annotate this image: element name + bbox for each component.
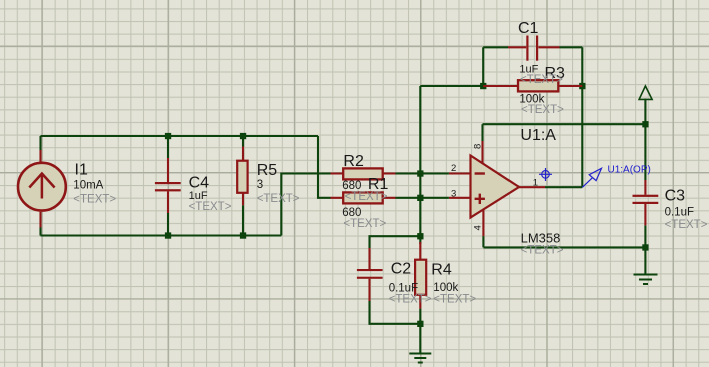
node C2/R4 top xyxy=(417,233,423,239)
resistor R4 xyxy=(415,242,426,309)
wire node to R4 top xyxy=(419,236,421,244)
wire R2 right to node xyxy=(396,172,449,174)
svg-text:<TEXT>: <TEXT> xyxy=(73,194,116,206)
svg-text:<TEXT>: <TEXT> xyxy=(343,218,386,230)
svg-text:<TEXT>: <TEXT> xyxy=(520,74,563,86)
wire C2 top branch xyxy=(370,236,421,248)
svg-text:<TEXT>: <TEXT> xyxy=(521,245,564,257)
node top rail / C4 xyxy=(165,133,171,139)
voltage probe U1:A(OP) xyxy=(582,168,601,187)
origin marker xyxy=(539,168,552,181)
svg-text:<TEXT>: <TEXT> xyxy=(521,104,564,116)
op-amp U1:A xyxy=(449,141,545,236)
wire output xyxy=(545,186,582,188)
svg-text:R2: R2 xyxy=(343,153,364,170)
node bottom rail / R5 xyxy=(240,232,246,238)
svg-text:2: 2 xyxy=(451,163,456,174)
svg-text:I1: I1 xyxy=(75,162,88,179)
node bottom rail / C4 xyxy=(165,232,171,238)
wire I1 bottom stub xyxy=(39,228,41,236)
svg-text:R5: R5 xyxy=(257,162,278,179)
svg-text:<TEXT>: <TEXT> xyxy=(189,201,232,213)
node feedback right xyxy=(579,83,585,89)
svg-text:U1:A: U1:A xyxy=(520,127,556,144)
resistor R2 xyxy=(331,168,396,179)
svg-text:R4: R4 xyxy=(431,262,452,279)
wire feedback right column xyxy=(581,47,583,187)
wire power rail top xyxy=(483,123,646,125)
wire C1 left xyxy=(483,46,508,48)
svg-text:LM358: LM358 xyxy=(521,230,561,245)
ground GND2 xyxy=(634,275,658,285)
svg-text:C1: C1 xyxy=(518,20,539,37)
wire R4 bottom to node xyxy=(419,309,421,324)
wire feedback left column xyxy=(419,86,421,236)
resistor R1 xyxy=(331,192,396,203)
wire feedback top row xyxy=(420,85,483,87)
capacitor C1 xyxy=(508,36,560,61)
capacitor C4 xyxy=(155,158,181,213)
current source I1 xyxy=(18,150,66,228)
resistor R5 xyxy=(237,147,247,206)
wire node down to ground GND1 xyxy=(419,324,421,353)
svg-text:U1:A(OP): U1:A(OP) xyxy=(608,165,651,176)
node feedback left xyxy=(480,83,486,89)
node top rail / R5 xyxy=(240,133,246,139)
wire power column down to C3 xyxy=(644,124,646,180)
resistor R3 xyxy=(483,80,582,91)
node ground rail / C3 xyxy=(642,244,648,250)
power terminal xyxy=(639,86,652,99)
svg-text:R1: R1 xyxy=(368,176,389,193)
wire pin4 down xyxy=(482,236,484,247)
wire top rail xyxy=(41,135,319,137)
capacitor C2 xyxy=(357,248,383,301)
node power rail xyxy=(642,121,648,127)
wire R5 bottom xyxy=(242,205,244,235)
svg-text:C3: C3 xyxy=(665,187,686,204)
wire C1 left column xyxy=(482,47,484,86)
svg-text:<TEXT>: <TEXT> xyxy=(257,193,300,205)
svg-text:1: 1 xyxy=(533,177,538,188)
wire C3 bottom xyxy=(644,225,646,247)
wire C3 node to ground GND2 xyxy=(644,247,646,273)
wire bottom rail corner up to R2 row xyxy=(281,174,330,236)
svg-text:<TEXT>: <TEXT> xyxy=(433,294,476,306)
svg-text:3: 3 xyxy=(257,179,263,191)
svg-text:10mA: 10mA xyxy=(73,180,103,192)
svg-text:100k: 100k xyxy=(433,282,458,294)
wire bottom rail xyxy=(41,234,282,236)
wire C2 bottom branch xyxy=(370,301,421,324)
wire bottom ground rail xyxy=(483,246,645,248)
node non-inverting input xyxy=(417,195,423,201)
svg-text:4: 4 xyxy=(473,225,484,230)
wire power arrow stub xyxy=(644,99,646,125)
wire top rail corner down to R1 row xyxy=(318,136,331,198)
node C2/R4 bottom xyxy=(417,321,423,327)
node inverting input xyxy=(417,170,423,176)
wire I1 top stub xyxy=(39,136,41,150)
svg-text:0.1uF: 0.1uF xyxy=(665,207,694,219)
svg-text:8: 8 xyxy=(473,144,484,149)
wire R5 top xyxy=(242,136,244,147)
ground GND1 xyxy=(409,354,431,363)
svg-text:C2: C2 xyxy=(391,260,412,277)
wire R1 right to node xyxy=(396,197,449,199)
svg-text:<TEXT>: <TEXT> xyxy=(665,219,708,231)
wire pin8 up xyxy=(481,124,483,141)
svg-text:<TEXT>: <TEXT> xyxy=(389,294,432,306)
wire C4 bottom xyxy=(167,213,169,236)
wire C1 right xyxy=(560,46,583,48)
svg-text:3: 3 xyxy=(451,189,456,200)
capacitor C3 xyxy=(633,180,659,225)
wire C4 top xyxy=(167,136,169,158)
